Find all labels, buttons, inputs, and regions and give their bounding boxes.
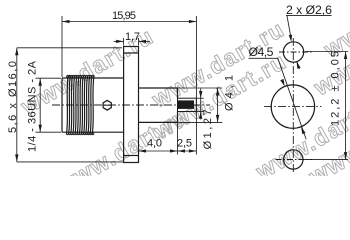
top mounting hole [283,42,303,62]
dim Ø4,1 [179,88,223,122]
svg-text:4,0: 4,0 [147,137,162,149]
top hole crosshair [279,51,312,53]
hex feature on body [103,100,112,110]
dim 4,0 / 2,5 [139,123,197,154]
dim 1,7 [114,38,150,46]
svg-text:15,95: 15,95 [112,10,136,22]
svg-text:2 x Ø2,6: 2 x Ø2,6 [286,3,332,17]
large circle [271,85,314,128]
thread hatch 1/4-36UNS-2A [66,75,94,134]
front view vertical centerline [292,38,294,173]
svg-text:Ø1,27: Ø1,27 [202,109,214,149]
svg-text:2,5: 2,5 [177,137,192,149]
flange [124,47,139,163]
large circle crosshair [264,106,322,108]
svg-text:Ø4,1: Ø4,1 [224,75,236,111]
svg-text:12,2 ± 0,05: 12,2 ± 0,05 [330,51,342,126]
dim 2 x Ø2,6 leader [286,15,332,69]
center pin Ø1.27 [178,98,197,111]
barrel Ø4.1 [139,88,178,122]
dim 5,6 flange height [17,48,124,162]
dim 15,95 [62,16,196,155]
dim Ø16,0 body [36,78,62,132]
dim Ø4,5 leader through large circle [249,58,307,139]
svg-text:1/4 - 36UNS - 2A: 1/4 - 36UNS - 2A [27,60,39,152]
bottom hole crosshair [276,159,313,161]
centerline side view [52,104,210,106]
dim Ø1,27 [197,89,204,120]
body outline (5.6 x Ø16.0) [62,78,124,132]
svg-text:1,7: 1,7 [125,31,140,43]
bottom mounting hole [284,150,303,169]
dim 12,2 ±0,05 [304,52,348,160]
svg-text:Ø4,5: Ø4,5 [249,45,274,59]
